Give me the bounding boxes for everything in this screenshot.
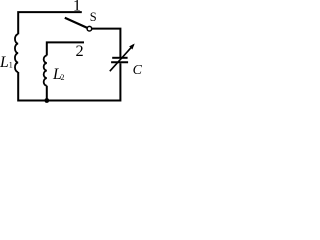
wire L2 bottom [46,86,48,101]
svg-text:1: 1 [73,0,81,15]
capacitor C bottom plate [111,61,128,63]
wire top-left: contact 1 lead and left side down to L1 [18,12,82,34]
svg-text:C: C [133,63,142,78]
svg-text:2: 2 [61,73,65,82]
svg-text:1: 1 [9,61,13,70]
capacitor C top plate [112,57,127,59]
svg-text:L: L [0,54,9,71]
svg-text:2: 2 [76,41,84,60]
variable capacitor arrow shaft [110,45,134,71]
inductor L2 [44,56,47,86]
wire switch pivot to top-right corner down to capacitor top plate [92,29,120,57]
switch S blade [65,18,87,28]
switch S pivot circle [87,26,92,31]
variable capacitor arrowhead [129,44,135,50]
wire left-bottom and bottom to right, up to capacitor bottom plate [18,63,120,100]
contact 2 lead [47,42,84,55]
svg-text:S: S [90,10,97,24]
inductor L1 [15,34,18,72]
junction dot [44,98,49,103]
